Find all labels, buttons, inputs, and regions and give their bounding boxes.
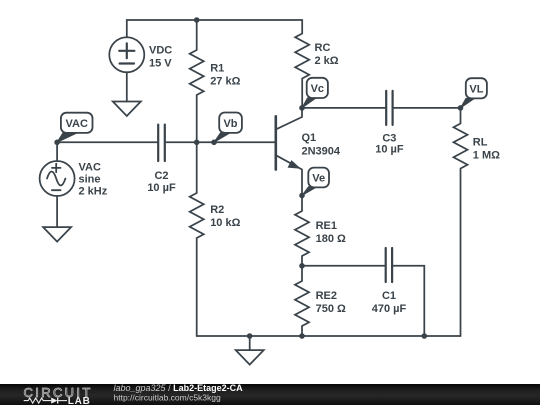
svg-text:10 µF: 10 µF [375,143,404,155]
wire bottom rail [197,335,461,337]
resistor R1 [190,20,204,142]
svg-text:C2: C2 [154,170,168,182]
svg-text:R2: R2 [210,204,224,216]
svg-text:180 Ω: 180 Ω [316,233,346,245]
svg-text:Vc: Vc [311,83,324,95]
wire VDC to ground [126,72,128,101]
flag Ve [302,168,329,196]
logo resistor squiggle [24,398,52,403]
transistor Q1 2N3904 [276,108,302,196]
label R2 10 kOhm [210,204,240,229]
svg-text:1 MΩ: 1 MΩ [473,150,500,162]
capacitor C3 [386,91,392,125]
wire VAC to ground [56,196,58,227]
svg-text:470 µF: 470 µF [372,303,407,315]
node RE2/bottom junction [299,333,305,339]
node RE1/RE2/C1 junction [299,263,305,269]
svg-text:Vb: Vb [223,118,237,130]
ground (VDC) [113,102,141,117]
svg-text:10 kΩ: 10 kΩ [210,217,240,229]
svg-text:RL: RL [473,137,488,149]
node Vb [211,140,217,146]
resistor RE2 [295,266,309,336]
voltage source VAC V2 (sine) [40,142,75,196]
resistor RL [454,108,468,336]
wire input rail (VAC to Q1 base) [57,141,276,143]
label VAC sine 2 kHz [79,162,108,198]
resistor R2 [190,142,204,336]
svg-text:Ve: Ve [312,173,325,185]
svg-text:Q1: Q1 [302,132,317,144]
svg-text:10 µF: 10 µF [147,182,176,194]
svg-text:LAB: LAB [68,396,91,405]
svg-text:15 V: 15 V [149,58,172,70]
svg-text:750 Ω: 750 Ω [316,303,346,315]
label Q1 2N3904 [302,132,341,157]
voltage source VDC V1 [109,37,144,72]
svg-text:VDC: VDC [149,45,172,57]
node ground junction [247,333,253,339]
node top-rail/R1 junction [194,17,200,23]
label C3 10 uF [375,132,404,155]
label C1 470 uF [372,290,407,315]
label R1 27 kOhm [210,62,240,87]
label RL 1 MOhm [473,137,500,162]
node VL [458,105,464,111]
svg-text:RE1: RE1 [316,220,337,232]
label RE1 180 Ohm [316,220,346,245]
label C2 10 uF [147,170,176,194]
node VAC [54,140,60,146]
wire ground stem [249,336,251,350]
svg-text:RE2: RE2 [316,290,337,302]
svg-text:2N3904: 2N3904 [302,145,341,157]
logo diode [51,398,57,404]
wire RE junction to C1 [302,265,386,267]
capacitor C1 [386,248,392,282]
svg-text:http://circuitlab.com/c5k3kgg: http://circuitlab.com/c5k3kgg [114,392,222,402]
svg-text:C1: C1 [382,290,396,302]
svg-text:VAC: VAC [65,118,87,130]
svg-text:VL: VL [469,84,483,96]
ground (VAC) [43,227,71,242]
svg-text:RC: RC [315,42,331,54]
flag VL [461,78,487,108]
flag Vb [214,113,242,143]
label RE2 750 Ohm [316,290,346,315]
ground (main) [236,350,264,365]
svg-text:sine: sine [79,174,101,186]
svg-text:R1: R1 [210,62,224,74]
svg-text:27 kΩ: 27 kΩ [210,75,240,87]
flag VAC [57,113,92,143]
wire Vc rail [302,107,461,109]
flag Vc [302,78,328,108]
label VDC 15 V [149,45,172,70]
resistor RC [295,20,309,108]
node Vc [299,105,305,111]
capacitor C2 [158,125,165,161]
node C1/bottom junction [422,333,428,339]
wire C1 to bottom rail [392,266,424,336]
node Ve [299,193,305,199]
label RC 2 kOhm [315,42,339,67]
wire top rail [127,20,302,37]
svg-text:2 kHz: 2 kHz [79,186,108,198]
svg-text:VAC: VAC [79,162,101,174]
footer bar [0,384,540,405]
svg-text:2 kΩ: 2 kΩ [315,55,339,67]
node R1/R2 junction [194,140,200,146]
resistor RE1 [295,196,309,266]
